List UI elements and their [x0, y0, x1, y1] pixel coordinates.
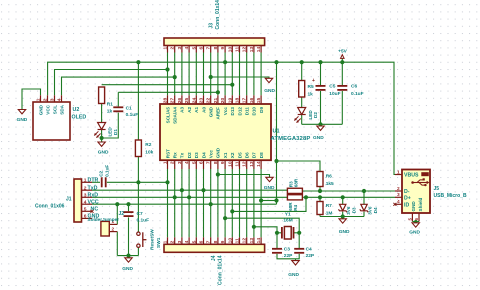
svg-text:10: 10 [227, 161, 233, 167]
svg-text:4: 4 [184, 47, 190, 50]
svg-text:C5: C5 [329, 84, 335, 90]
svg-text:6: 6 [414, 218, 419, 221]
svg-text:26: 26 [177, 97, 183, 103]
svg-text:16M: 16M [283, 218, 292, 224]
svg-text:8: 8 [213, 240, 219, 243]
svg-text:GND: GND [209, 106, 214, 117]
svg-text:TxD: TxD [88, 185, 98, 191]
svg-text:SDA: SDA [59, 104, 64, 114]
svg-text:Conn_01x06: Conn_01x06 [35, 203, 65, 209]
svg-text:GND: GND [288, 272, 299, 278]
svg-text:13: 13 [249, 238, 255, 244]
svg-text:14: 14 [256, 238, 262, 244]
svg-text:LED: LED [108, 127, 113, 137]
svg-text:22P: 22P [306, 253, 315, 259]
svg-text:USB_Micro_B: USB_Micro_B [434, 193, 467, 199]
svg-text:D3: D3 [194, 152, 199, 158]
svg-text:D12: D12 [237, 107, 242, 116]
svg-text:9: 9 [220, 47, 226, 50]
svg-text:12: 12 [242, 238, 248, 244]
svg-text:10k: 10k [145, 150, 153, 156]
svg-text:Y1: Y1 [285, 211, 291, 217]
svg-text:C2: C2 [99, 170, 104, 176]
svg-text:13: 13 [249, 161, 255, 167]
svg-text:D1: D1 [113, 129, 118, 135]
svg-text:J2: J2 [119, 211, 125, 217]
svg-text:2: 2 [84, 185, 87, 191]
svg-text:C6: C6 [351, 84, 357, 90]
svg-text:C7: C7 [137, 211, 143, 217]
svg-text:ID: ID [404, 202, 409, 208]
svg-text:2: 2 [170, 240, 176, 243]
svg-text:1: 1 [163, 47, 169, 50]
svg-text:A0: A0 [201, 107, 206, 113]
svg-text:R1: R1 [107, 101, 113, 107]
svg-text:7: 7 [206, 47, 212, 50]
svg-text:D3: D3 [352, 207, 357, 213]
svg-text:23: 23 [199, 97, 205, 103]
svg-text:GND: GND [216, 147, 221, 158]
svg-text:R6: R6 [326, 174, 332, 180]
svg-text:Rx: Rx [173, 152, 178, 158]
svg-text:R2: R2 [145, 142, 151, 148]
svg-text:8: 8 [213, 47, 219, 50]
svg-text:1: 1 [163, 240, 169, 243]
svg-text:13: 13 [249, 47, 255, 53]
svg-text:0.1uF: 0.1uF [126, 112, 139, 118]
svg-text:27: 27 [170, 97, 176, 103]
svg-text:GND: GND [313, 135, 324, 141]
svg-text:68R: 68R [294, 178, 299, 187]
svg-text:11: 11 [235, 238, 241, 243]
svg-text:17: 17 [242, 97, 248, 103]
svg-text:12: 12 [242, 47, 248, 53]
svg-text:2: 2 [170, 161, 176, 164]
svg-text:3: 3 [177, 47, 183, 50]
svg-text:VCC: VCC [88, 199, 99, 205]
svg-text:SW1: SW1 [156, 237, 162, 248]
svg-text:J4: J4 [211, 255, 217, 261]
svg-text:D2: D2 [313, 112, 318, 118]
svg-text:15: 15 [256, 97, 262, 103]
svg-text:R4: R4 [293, 204, 298, 210]
svg-text:U1: U1 [273, 129, 280, 135]
svg-text:+: + [312, 78, 315, 84]
svg-text:U2: U2 [73, 107, 80, 113]
svg-text:12: 12 [242, 161, 248, 167]
svg-text:J1: J1 [66, 196, 72, 202]
svg-text:SCL: SCL [52, 105, 57, 114]
svg-text:10uF: 10uF [329, 91, 340, 97]
svg-text:GND: GND [411, 201, 416, 212]
svg-text:Vcc: Vcc [223, 107, 228, 116]
svg-text:3: 3 [177, 240, 183, 243]
svg-text:3: 3 [84, 193, 87, 199]
svg-text:D-: D- [404, 189, 410, 195]
svg-text:GND: GND [409, 229, 420, 235]
svg-text:DTR: DTR [88, 178, 99, 184]
svg-text:11: 11 [235, 161, 241, 166]
svg-text:9: 9 [220, 161, 226, 164]
svg-text:AREF: AREF [216, 107, 221, 120]
svg-text:SDA/A4: SDA/A4 [173, 107, 178, 124]
svg-text:2: 2 [397, 186, 400, 192]
svg-text:24: 24 [191, 97, 197, 103]
svg-text:GND: GND [17, 117, 28, 123]
svg-text:22P: 22P [284, 253, 293, 259]
svg-text:GND: GND [264, 185, 275, 191]
svg-text:3: 3 [50, 98, 56, 101]
svg-text:VCC: VCC [45, 104, 50, 114]
svg-text:3: 3 [397, 192, 400, 198]
svg-text:68R: 68R [288, 202, 293, 211]
svg-text:20: 20 [220, 97, 226, 103]
svg-text:SolderJumper: SolderJumper [88, 217, 120, 222]
svg-text:D10: D10 [252, 107, 257, 116]
svg-text:14: 14 [256, 161, 262, 167]
svg-text:6: 6 [199, 47, 205, 50]
svg-text:C1: C1 [126, 105, 132, 111]
svg-text:16: 16 [249, 97, 255, 103]
svg-text:28: 28 [163, 97, 169, 103]
svg-text:Vcc: Vcc [209, 150, 214, 159]
svg-text:0.1uF: 0.1uF [351, 91, 364, 97]
svg-text:1k5: 1k5 [326, 181, 334, 187]
svg-text:Shield: Shield [418, 198, 423, 212]
svg-text:Conn_01x14: Conn_01x14 [215, 0, 221, 30]
svg-text:22: 22 [206, 97, 212, 103]
svg-text:1k: 1k [308, 92, 314, 98]
svg-text:GND: GND [339, 229, 350, 235]
svg-text:3V6: 3V6 [368, 206, 373, 215]
svg-text:1k: 1k [107, 108, 113, 114]
svg-text:D2: D2 [187, 152, 192, 158]
svg-text:D+: D+ [404, 195, 411, 201]
svg-text:D5: D5 [237, 152, 242, 158]
svg-text:X1: X1 [223, 152, 228, 158]
svg-text:4: 4 [397, 199, 400, 205]
svg-text:10: 10 [227, 47, 233, 53]
svg-text:0.1uF: 0.1uF [137, 218, 150, 224]
svg-text:4: 4 [184, 240, 190, 243]
svg-text:10: 10 [227, 238, 233, 244]
svg-text:25: 25 [184, 97, 190, 103]
svg-text:D11: D11 [245, 107, 250, 116]
svg-text:4: 4 [84, 199, 87, 205]
svg-text:GND: GND [264, 88, 275, 94]
svg-text:D6: D6 [245, 152, 250, 158]
svg-text:D9: D9 [259, 107, 264, 113]
svg-text:RST: RST [165, 149, 170, 158]
svg-text:+5V: +5V [338, 48, 347, 54]
svg-text:18: 18 [235, 97, 241, 103]
svg-text:A1: A1 [194, 107, 199, 113]
svg-text:C4: C4 [306, 247, 312, 253]
svg-text:5: 5 [407, 218, 412, 221]
svg-text:1: 1 [36, 98, 42, 101]
svg-text:2: 2 [43, 98, 49, 101]
svg-text:4: 4 [184, 161, 190, 164]
svg-text:GND: GND [122, 266, 133, 272]
svg-text:ResetSW: ResetSW [150, 229, 156, 250]
svg-text:GND: GND [38, 104, 43, 115]
svg-text:ATMEGA328P: ATMEGA328P [271, 136, 311, 142]
svg-text:0.1uF: 0.1uF [104, 165, 109, 177]
svg-text:D8: D8 [259, 152, 264, 158]
svg-text:1: 1 [84, 178, 87, 184]
svg-text:VBUS: VBUS [404, 173, 419, 179]
svg-text:11: 11 [235, 47, 241, 52]
svg-text:1: 1 [163, 161, 169, 164]
svg-text:9: 9 [220, 240, 226, 243]
svg-text:5: 5 [191, 240, 197, 243]
svg-text:1: 1 [397, 169, 400, 175]
svg-text:X2: X2 [230, 152, 235, 158]
svg-text:2: 2 [112, 226, 115, 232]
svg-text:D7: D7 [252, 152, 257, 158]
svg-text:8: 8 [213, 161, 219, 164]
svg-text:D13: D13 [230, 107, 235, 116]
svg-text:SCL/A5: SCL/A5 [165, 107, 170, 124]
svg-text:5: 5 [191, 47, 197, 50]
svg-text:2: 2 [170, 47, 176, 50]
svg-text:GND: GND [98, 149, 109, 155]
svg-text:OLED: OLED [72, 115, 87, 121]
svg-text:C3: C3 [284, 247, 290, 253]
svg-text:21: 21 [213, 97, 219, 103]
svg-text:R5: R5 [308, 84, 314, 90]
svg-text:D4: D4 [373, 207, 378, 213]
svg-text:5: 5 [191, 161, 197, 164]
svg-text:J3: J3 [209, 23, 215, 29]
svg-text:RxD: RxD [88, 193, 99, 199]
svg-text:5: 5 [84, 207, 87, 213]
svg-text:7: 7 [206, 240, 212, 243]
svg-text:19: 19 [227, 97, 233, 103]
svg-text:Tx: Tx [180, 152, 185, 158]
svg-text:14: 14 [256, 47, 262, 53]
svg-text:A3: A3 [180, 107, 185, 113]
svg-text:R7: R7 [326, 203, 332, 209]
svg-text:3V6: 3V6 [346, 206, 351, 215]
svg-text:A2: A2 [187, 107, 192, 113]
svg-text:3: 3 [177, 161, 183, 164]
svg-text:6: 6 [199, 240, 205, 243]
svg-text:6: 6 [199, 161, 205, 164]
svg-text:LED: LED [308, 110, 313, 120]
svg-text:4: 4 [57, 98, 63, 101]
svg-text:J5: J5 [434, 186, 440, 192]
svg-text:Conn_01x14: Conn_01x14 [218, 255, 224, 285]
svg-text:1M: 1M [326, 210, 333, 216]
svg-text:D4: D4 [201, 152, 206, 158]
svg-text:7: 7 [206, 161, 212, 164]
svg-text:6: 6 [84, 214, 87, 220]
